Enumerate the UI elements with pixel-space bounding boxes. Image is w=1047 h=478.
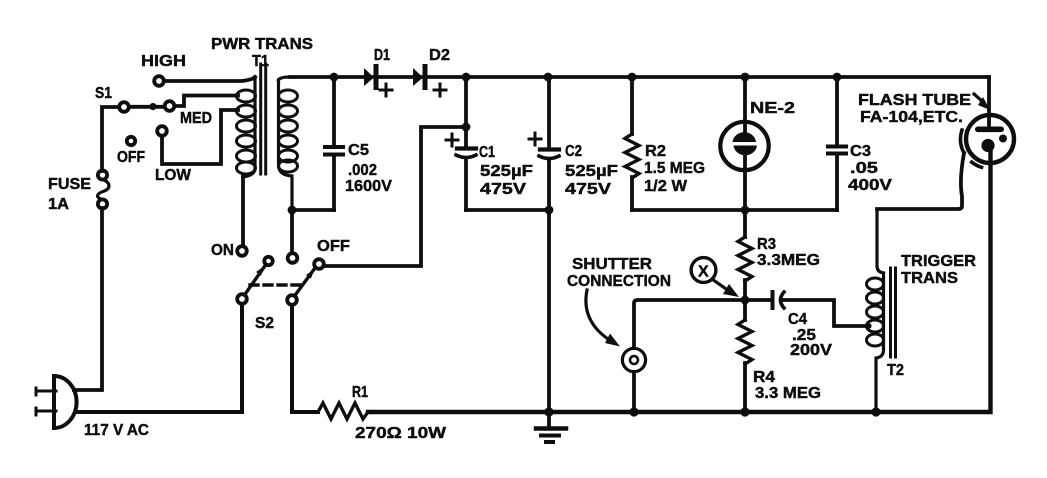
node junction bottom rail ground bbox=[544, 407, 553, 416]
wire R2 bottom rail to C3 bbox=[632, 208, 837, 212]
wire shutter connection to R3/R4 node bbox=[634, 300, 745, 348]
svg-text:1.5 MEG: 1.5 MEG bbox=[644, 160, 705, 177]
wire S2 OFF contact to C1 top node bbox=[324, 127, 466, 266]
svg-text:PWR TRANS: PWR TRANS bbox=[211, 36, 313, 53]
svg-text:C4: C4 bbox=[788, 311, 807, 328]
svg-text:X: X bbox=[698, 264, 709, 281]
switch S1 OFF contact bbox=[127, 137, 135, 145]
svg-text:FLASH TUBE: FLASH TUBE bbox=[858, 92, 971, 109]
wire LOW contact to T1 primary tap bbox=[162, 110, 238, 164]
diode D2 bbox=[413, 47, 450, 96]
svg-text:OFF: OFF bbox=[317, 238, 350, 255]
capacitor C3 bbox=[828, 77, 892, 210]
switch S1 HIGH contact bbox=[154, 76, 164, 86]
svg-text:1A: 1A bbox=[48, 196, 69, 213]
svg-text:NE-2: NE-2 bbox=[750, 100, 795, 117]
svg-text:SHUTTER: SHUTTER bbox=[572, 256, 652, 273]
capacitor C1 bbox=[446, 77, 533, 210]
plug 117 V AC bbox=[36, 376, 149, 439]
svg-text:3.3 MEG: 3.3 MEG bbox=[755, 385, 821, 402]
svg-text:C1: C1 bbox=[479, 144, 495, 161]
wire junction down to S2 contact bbox=[290, 210, 294, 253]
S2 right arm bbox=[295, 268, 316, 296]
node junction C1/C2 bottom bbox=[545, 206, 554, 215]
wire S2 right pole down to R1 bbox=[292, 305, 318, 412]
svg-text:OFF: OFF bbox=[117, 149, 145, 166]
wire MED contact to T1 primary tap bbox=[175, 96, 239, 107]
capacitor C2 bbox=[529, 77, 618, 210]
svg-text:525µF: 525µF bbox=[565, 163, 618, 180]
S2 left pole bbox=[237, 294, 247, 304]
T1 primary winding bbox=[243, 77, 255, 177]
svg-text:C3: C3 bbox=[850, 143, 871, 160]
svg-text:1600V: 1600V bbox=[345, 178, 392, 195]
svg-text:ON: ON bbox=[211, 242, 234, 259]
svg-text:FUSE: FUSE bbox=[48, 176, 91, 193]
S2 OFF contact bbox=[314, 259, 324, 269]
node junction NE-2 bottom rail bbox=[741, 206, 750, 215]
svg-text:S1: S1 bbox=[95, 85, 112, 102]
switch S1 pole bbox=[119, 102, 129, 112]
node junction OFF wire at C1 branch bbox=[462, 123, 471, 132]
switch S1 LOW contact bbox=[157, 126, 167, 136]
resistor R3 bbox=[738, 210, 820, 300]
capacitor C4 bbox=[745, 292, 872, 359]
S2 right pole bbox=[287, 295, 297, 305]
wire flash tube anode drop bbox=[987, 77, 991, 127]
svg-text:R1: R1 bbox=[352, 384, 368, 401]
trigger transformer T2 bbox=[867, 209, 977, 412]
node junction T1 secondary bottom / C5 / S2 bbox=[288, 206, 297, 215]
T2 core bbox=[891, 268, 896, 357]
svg-text:T2: T2 bbox=[887, 362, 904, 379]
svg-text:200V: 200V bbox=[790, 342, 832, 359]
resistor R4 bbox=[738, 300, 821, 412]
wire plug bottom AC rail to S2 left pole bbox=[76, 304, 242, 412]
wire trigger electrode to T2 bbox=[877, 153, 964, 209]
svg-text:T1: T1 bbox=[252, 53, 269, 70]
resistor R1 bbox=[318, 384, 447, 442]
svg-text:S2: S2 bbox=[255, 315, 274, 332]
svg-text:117 V AC: 117 V AC bbox=[84, 422, 149, 439]
wire secondary bottom junction to C5 bottom bbox=[292, 208, 334, 212]
wire C1 bottom to C2 bottom bbox=[466, 208, 549, 212]
S2 ON contact bbox=[237, 246, 247, 256]
svg-text:TRIGGER: TRIGGER bbox=[901, 253, 976, 270]
node junction bottom rail shutter bbox=[629, 407, 638, 416]
switch S2 bbox=[211, 238, 350, 332]
ground bbox=[536, 412, 566, 442]
node junction top rail C1 bbox=[462, 73, 471, 82]
X sync terminal bbox=[691, 258, 739, 297]
svg-text:FA-104,ETC.: FA-104,ETC. bbox=[860, 109, 963, 126]
resistor R2 bbox=[625, 77, 705, 210]
svg-text:C2: C2 bbox=[565, 143, 582, 160]
svg-text:LOW: LOW bbox=[155, 167, 192, 184]
flash tube V1 bbox=[858, 92, 1014, 209]
svg-text:1/2 W: 1/2 W bbox=[644, 178, 688, 195]
switch S1 MED contact bbox=[165, 101, 175, 111]
node junction bottom rail T2 bbox=[871, 407, 880, 416]
S2 center contact bbox=[288, 253, 298, 263]
svg-text:MED: MED bbox=[180, 110, 212, 127]
S2 left arm bbox=[245, 265, 266, 295]
svg-text:R4: R4 bbox=[753, 369, 775, 386]
capacitor C5 bbox=[325, 77, 392, 210]
S2 mechanical link dashed bbox=[250, 283, 300, 286]
svg-text:TRANS: TRANS bbox=[901, 270, 958, 287]
arrow to flash tube bbox=[974, 94, 983, 102]
svg-text:R3: R3 bbox=[757, 236, 776, 253]
svg-text:R2: R2 bbox=[645, 143, 666, 160]
svg-text:475V: 475V bbox=[480, 181, 526, 198]
svg-text:475V: 475V bbox=[565, 181, 611, 198]
flash tube trigger electrode arc bbox=[961, 130, 964, 153]
arrow to shutter terminal bbox=[586, 290, 608, 339]
svg-text:400V: 400V bbox=[848, 177, 892, 194]
switch S1 arm to MED bbox=[129, 105, 164, 109]
node junction top rail C2 bbox=[544, 73, 553, 82]
wire bottom rail from R1 to flash tube cathode bbox=[368, 150, 991, 412]
node junction bottom rail R4 bbox=[740, 407, 749, 416]
wire HIGH contact to T1 primary top bbox=[164, 77, 255, 81]
svg-text:270Ω 10W: 270Ω 10W bbox=[355, 425, 447, 442]
svg-text:D1: D1 bbox=[374, 47, 390, 64]
svg-text:.05: .05 bbox=[850, 160, 878, 177]
diode D1 bbox=[364, 47, 392, 96]
wire top rail from T1 secondary to flash tube bbox=[290, 75, 989, 79]
T1 core bbox=[261, 64, 266, 174]
node junction top rail NE-2 bbox=[741, 73, 750, 82]
svg-text:D2: D2 bbox=[429, 47, 450, 64]
T1 secondary winding bbox=[279, 77, 291, 80]
neon lamp NE-2 bbox=[720, 77, 795, 210]
svg-text:HIGH: HIGH bbox=[141, 53, 186, 70]
transformer T1 bbox=[211, 36, 313, 246]
svg-text:525µF: 525µF bbox=[480, 163, 533, 180]
shutter connection terminal bbox=[622, 348, 645, 412]
wire plug top to fuse vertical bbox=[74, 208, 102, 390]
node junction R3/R4/C4/shutter bbox=[741, 296, 750, 305]
node junction top rail R2 bbox=[628, 73, 637, 82]
svg-text:3.3MEG: 3.3MEG bbox=[757, 252, 820, 269]
node junction top rail C5 bbox=[330, 73, 339, 82]
wire fuse top to S1 pole bbox=[102, 107, 119, 171]
node junction top rail C3 bbox=[833, 73, 842, 82]
fuse F1 bbox=[48, 170, 109, 213]
svg-text:.002: .002 bbox=[348, 162, 377, 179]
wire C2 bottom to ground rail bbox=[547, 210, 551, 412]
svg-text:CONNECTION: CONNECTION bbox=[567, 273, 671, 290]
label SHUTTER CONNECTION bbox=[567, 256, 671, 347]
svg-text:C5: C5 bbox=[348, 142, 369, 159]
